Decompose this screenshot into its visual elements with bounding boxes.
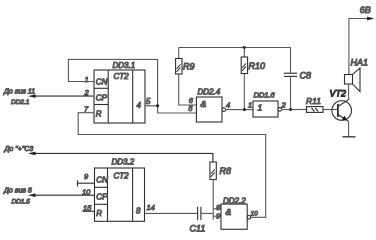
- svg-text:DD3.2: DD3.2: [112, 158, 135, 167]
- top rail wire: [179, 48, 291, 74]
- svg-text:9: 9: [84, 172, 89, 181]
- NAND gate DD2.4: [196, 97, 225, 122]
- capacitor C11: [190, 207, 214, 234]
- svg-text:5: 5: [146, 97, 151, 106]
- pin 15 stub: [82, 210, 94, 212]
- svg-text:&: &: [201, 99, 207, 109]
- svg-text:DD1.5: DD1.5: [12, 199, 31, 206]
- output wire DD3.1: [145, 106, 196, 113]
- svg-text:4: 4: [226, 101, 230, 110]
- svg-text:14: 14: [147, 203, 155, 212]
- svg-text:C11: C11: [190, 224, 206, 234]
- junction R10 top: [243, 46, 246, 49]
- svg-text:6В: 6В: [360, 5, 371, 15]
- wire DD16 out: [282, 109, 291, 111]
- speaker HA1: [345, 58, 369, 92]
- node output DD3.1: [156, 104, 159, 107]
- ground: [343, 136, 356, 138]
- svg-text:НА1: НА1: [351, 58, 369, 68]
- resistor R8: [210, 162, 231, 220]
- svg-text:DD2.4: DD2.4: [198, 88, 221, 97]
- CP input arrow wire (to DD2.1 pin 11): [3, 89, 94, 107]
- svg-text:1: 1: [248, 101, 252, 110]
- wire collector to speaker: [348, 84, 350, 100]
- svg-text:R10: R10: [249, 61, 266, 71]
- svg-text:8: 8: [136, 207, 141, 216]
- svg-text:1: 1: [258, 103, 263, 113]
- svg-text:До вив 8: До вив 8: [3, 188, 32, 195]
- output wire DD2.4 to DD16: [226, 109, 253, 111]
- pin 9 stub with terminal: [78, 180, 95, 186]
- node R10 bottom: [243, 108, 246, 111]
- junction node C8/R11: [289, 108, 292, 111]
- NAND gate DD2.2: [221, 204, 251, 229]
- C3 "+" arrow wire: [4, 146, 213, 162]
- svg-text:До "+"С3: До "+"С3: [4, 146, 34, 153]
- svg-text:DD1.6: DD1.6: [254, 91, 276, 100]
- svg-text:DD3.1: DD3.1: [113, 61, 136, 70]
- svg-text:CP: CP: [96, 94, 108, 103]
- 6V supply arrow: [349, 5, 375, 75]
- counter DD3.1: [94, 70, 145, 123]
- capacitor C8: [284, 71, 311, 109]
- counter DD3.2: [95, 168, 145, 221]
- svg-text:CN: CN: [96, 78, 108, 87]
- svg-text:R11: R11: [306, 96, 321, 106]
- transistor VT2: [330, 89, 352, 122]
- output wire DD3.2 pin14: [145, 212, 198, 214]
- inverter DD16: [253, 101, 282, 117]
- svg-text:2: 2: [281, 101, 287, 110]
- svg-text:CT2: CT2: [114, 72, 130, 81]
- svg-text:R9: R9: [183, 61, 195, 71]
- pin 10 arrow wire (to DD1.5 pin 8): [3, 188, 95, 206]
- R reset wire DD3.1 to DD2.2 output: [78, 113, 266, 218]
- feedback wire pin1-output DD3.1: [68, 59, 157, 105]
- svg-text:VT2: VT2: [330, 89, 347, 99]
- emitter wire: [348, 121, 350, 137]
- resistor R9: [176, 48, 197, 106]
- resistor R11: [291, 96, 338, 112]
- svg-text:R: R: [96, 110, 102, 119]
- svg-text:CN: CN: [96, 176, 108, 185]
- svg-text:1: 1: [85, 75, 89, 84]
- svg-text:10: 10: [251, 211, 259, 218]
- svg-text:&: &: [226, 207, 232, 217]
- svg-text:До вив 11: До вив 11: [3, 89, 35, 96]
- resistor R10: [241, 48, 265, 110]
- svg-text:DD2.1: DD2.1: [11, 99, 30, 106]
- svg-text:DD2.2: DD2.2: [223, 197, 246, 206]
- svg-text:C8: C8: [300, 71, 312, 81]
- svg-text:CT2: CT2: [114, 172, 130, 181]
- svg-text:CP: CP: [96, 193, 108, 202]
- svg-text:R8: R8: [220, 166, 232, 176]
- svg-text:4: 4: [137, 101, 142, 110]
- svg-text:R: R: [96, 209, 102, 218]
